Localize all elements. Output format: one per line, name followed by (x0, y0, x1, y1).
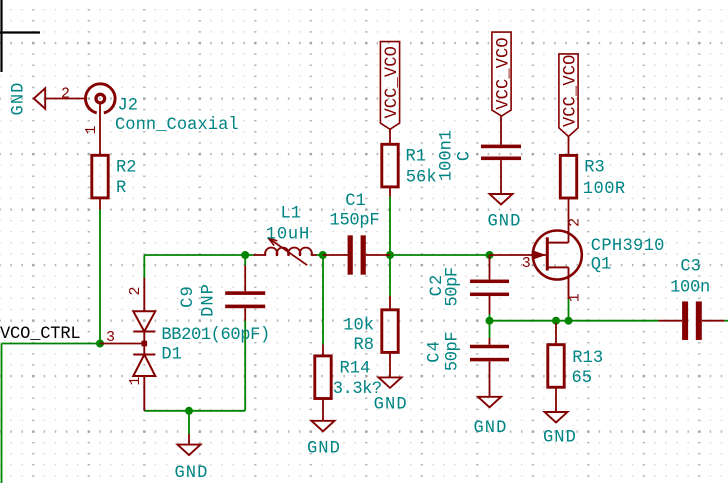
svg-text:3: 3 (522, 255, 531, 272)
svg-text:GND: GND (10, 81, 29, 115)
svg-text:50pF: 50pF (443, 332, 462, 371)
svg-text:VCC_VCO: VCC_VCO (383, 46, 402, 119)
svg-text:C3: C3 (680, 257, 701, 276)
svg-text:Q1: Q1 (591, 256, 612, 275)
svg-text:10uH: 10uH (266, 226, 310, 245)
svg-text:10k: 10k (343, 316, 374, 335)
svg-text:2: 2 (127, 286, 144, 295)
svg-text:1: 1 (127, 376, 144, 385)
svg-text:R: R (116, 179, 126, 198)
svg-text:R3: R3 (584, 158, 605, 177)
svg-text:GND: GND (487, 213, 521, 232)
svg-text:GND: GND (174, 464, 208, 483)
svg-text:GND: GND (543, 429, 577, 448)
svg-text:100n: 100n (670, 279, 710, 298)
svg-text:GND: GND (307, 440, 341, 459)
svg-text:150pF: 150pF (330, 212, 380, 231)
svg-text:BB201(60pF): BB201(60pF) (161, 326, 269, 345)
svg-text:CPH3910: CPH3910 (591, 237, 665, 256)
svg-text:100n1: 100n1 (438, 130, 457, 181)
svg-text:J2: J2 (118, 97, 139, 116)
svg-text:100R: 100R (583, 180, 626, 199)
svg-text:1: 1 (83, 125, 100, 134)
svg-text:3.3k?: 3.3k? (333, 380, 382, 399)
svg-text:50pF: 50pF (443, 267, 462, 306)
svg-text:DNP: DNP (200, 283, 219, 317)
svg-text:C9: C9 (179, 285, 198, 308)
svg-text:R14: R14 (340, 360, 371, 379)
svg-text:C4: C4 (426, 340, 445, 363)
svg-text:R8: R8 (353, 336, 374, 355)
svg-text:L1: L1 (281, 205, 302, 224)
svg-text:VCO_CTRL: VCO_CTRL (0, 325, 80, 344)
svg-text:VCC_VCO: VCC_VCO (561, 55, 580, 128)
svg-text:C: C (456, 151, 475, 161)
svg-text:2: 2 (567, 218, 584, 227)
svg-text:56k: 56k (406, 168, 437, 187)
svg-text:VCC_VCO: VCC_VCO (494, 37, 513, 110)
svg-text:R13: R13 (572, 349, 603, 368)
svg-text:GND: GND (473, 419, 507, 438)
svg-text:D1: D1 (161, 345, 182, 364)
svg-text:R1: R1 (406, 148, 427, 167)
svg-text:R2: R2 (116, 159, 137, 178)
svg-text:C1: C1 (345, 192, 366, 211)
svg-text:Conn_Coaxial: Conn_Coaxial (115, 116, 239, 135)
svg-text:65: 65 (572, 369, 593, 388)
svg-text:2: 2 (61, 85, 70, 102)
svg-text:1: 1 (567, 293, 584, 302)
